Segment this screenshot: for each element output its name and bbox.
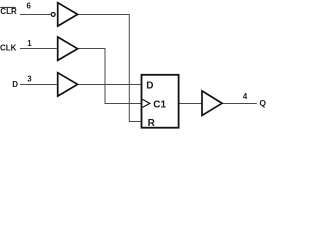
- svg-text:R: R: [148, 118, 156, 129]
- svg-text:C1: C1: [153, 99, 166, 110]
- svg-text:CLR: CLR: [0, 7, 17, 16]
- svg-text:D: D: [146, 80, 153, 91]
- svg-text:Q: Q: [259, 98, 266, 108]
- svg-text:CLK: CLK: [0, 44, 17, 53]
- svg-text:6: 6: [27, 2, 32, 11]
- svg-text:D: D: [12, 80, 18, 89]
- svg-text:4: 4: [243, 92, 248, 101]
- svg-text:3: 3: [27, 75, 32, 84]
- svg-text:1: 1: [27, 39, 32, 48]
